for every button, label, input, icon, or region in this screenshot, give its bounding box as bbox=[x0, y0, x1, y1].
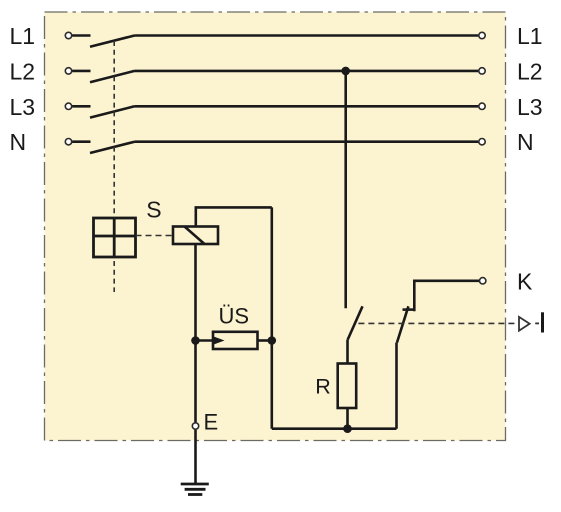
mechanical linkage (dashed vertical) of switch S bbox=[113, 41, 115, 292]
signal output triangle bbox=[519, 317, 530, 331]
terminal L2 left bbox=[65, 68, 71, 74]
svg-text:K: K bbox=[517, 268, 533, 294]
terminal K bbox=[480, 278, 486, 284]
wire L3 left stub bbox=[72, 105, 90, 108]
bottom rail wire bbox=[272, 427, 397, 430]
svg-text:L2: L2 bbox=[517, 59, 543, 85]
svg-text:N: N bbox=[10, 129, 27, 155]
wire trip coil top to right riser bbox=[196, 207, 272, 226]
mechanical linkage (dashed) drive to trip coil bbox=[136, 235, 173, 237]
switch pole L1 (blade) bbox=[90, 36, 135, 47]
wire L2 left stub bbox=[72, 70, 90, 73]
junction dot left of ÜS bbox=[191, 336, 200, 345]
svg-text:N: N bbox=[517, 129, 534, 155]
svg-text:E: E bbox=[204, 410, 219, 435]
switch pole L2 (blade) bbox=[90, 71, 135, 82]
terminal N left bbox=[65, 139, 71, 145]
terminal L3 right bbox=[479, 103, 485, 109]
terminal L1 right bbox=[479, 32, 485, 38]
junction dot right of ÜS bbox=[268, 336, 277, 345]
wire right riser down to bottom rail bbox=[270, 207, 273, 428]
wire L3 main bbox=[135, 105, 479, 108]
terminal L3 left bbox=[65, 103, 71, 109]
switch pole N (blade) bbox=[90, 142, 135, 153]
junction dot on L2 bbox=[341, 67, 350, 76]
wire L2 tap down to gap switch bbox=[344, 71, 347, 308]
enclosure (dash-dot boundary box) bbox=[45, 12, 506, 441]
switch pole L3 (blade) bbox=[90, 106, 135, 117]
wire trip coil bottom down to earth bbox=[194, 244, 197, 422]
signal output end bar bbox=[541, 312, 544, 332]
surge arrester ÜS (box) bbox=[213, 332, 258, 349]
wire N main bbox=[135, 140, 479, 143]
svg-text:L1: L1 bbox=[10, 23, 36, 49]
svg-text:S: S bbox=[146, 197, 161, 223]
terminal L2 right bbox=[479, 68, 485, 74]
terminal N right bbox=[479, 139, 485, 145]
switch contact in L2 tap (blade) bbox=[348, 306, 363, 339]
dashed link after triangle bbox=[535, 322, 539, 324]
wire L2 main bbox=[135, 70, 479, 73]
wire R bottom to rail bbox=[346, 408, 349, 429]
svg-text:L3: L3 bbox=[10, 94, 36, 120]
terminal E bbox=[192, 423, 198, 429]
terminal L1 left bbox=[65, 32, 71, 38]
wire N left stub bbox=[72, 140, 90, 143]
wire L1 main bbox=[135, 34, 479, 37]
svg-text:L1: L1 bbox=[517, 23, 543, 49]
switch contact K (blade) bbox=[397, 306, 408, 342]
ground (earth symbol) bbox=[181, 484, 209, 495]
wire K branch riser bbox=[395, 343, 398, 429]
mechanical linkage (dashed) to signal output bbox=[358, 322, 517, 324]
arrow into surge arrester ÜS bbox=[196, 339, 215, 342]
svg-text:R: R bbox=[315, 375, 331, 399]
wire ÜS right to riser bbox=[258, 339, 272, 342]
wire L1 left stub bbox=[72, 34, 90, 37]
svg-text:ÜS: ÜS bbox=[219, 304, 250, 329]
fixed contact tick of K switch bbox=[403, 308, 415, 311]
resistor R bbox=[338, 364, 357, 409]
svg-text:L2: L2 bbox=[10, 59, 36, 85]
junction dot on bottom rail bbox=[343, 424, 352, 433]
wire E to earth bbox=[194, 430, 197, 484]
manual drive symbol (square with cross) bbox=[94, 218, 136, 257]
trip coil / release S (box with diagonal) bbox=[173, 227, 218, 245]
wire blade to resistor R bbox=[346, 340, 349, 364]
wire K fixed contact to terminal bbox=[414, 281, 479, 311]
svg-text:L3: L3 bbox=[517, 94, 543, 120]
